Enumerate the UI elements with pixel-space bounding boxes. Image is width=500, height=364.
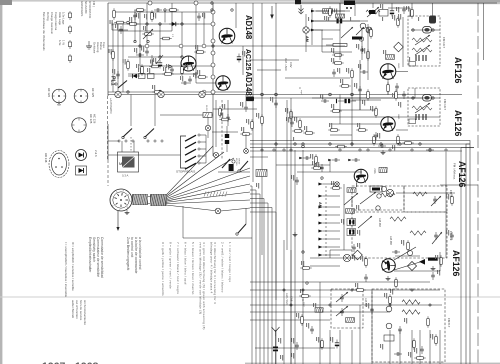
bottom cluster x [354, 289, 366, 292]
svg-text:1968: 1968 [75, 361, 99, 364]
switch contact S2 on supply rail [199, 91, 205, 97]
resistor R113 [194, 51, 206, 54]
svg-text:AM 480: AM 480 [389, 236, 393, 245]
cap u bottom [295, 342, 299, 350]
T6 wiring [396, 71, 408, 73]
svg-text:CAV: CAV [289, 62, 293, 68]
transistor T5 AF126 IF2 [381, 117, 395, 131]
cluster row2 a [274, 100, 278, 108]
AM osc pot arrow [344, 193, 358, 205]
svg-text:9 = gelb / yellow / jaune / am: 9 = gelb / yellow / jaune / amarillo [161, 242, 165, 296]
transistor T1 AD148 output [219, 28, 235, 44]
IF can FM10.7 second [408, 88, 440, 126]
FM small pot [397, 16, 400, 28]
cap C505 box [148, 74, 155, 79]
svg-text:Carga maxima: Carga maxima [54, 12, 58, 31]
svg-text:DT/FONT/FD: DT/FONT/FD [88, 1, 92, 18]
emitter parts T6 [387, 82, 390, 94]
svg-text:to control unit: to control unit [130, 237, 134, 257]
AM circuit small parts [332, 54, 344, 57]
AM band switch wedges [311, 10, 315, 13]
AM ant coil hatched [323, 9, 333, 14]
svg-text:AD 148: AD 148 [44, 153, 48, 163]
elco top [390, 8, 394, 17]
transistor T2 AC125 driver [181, 56, 196, 71]
cluster row2 e [328, 129, 340, 132]
pilot lamp [205, 125, 210, 130]
svg-text:AF 126: AF 126 [47, 88, 51, 97]
switch contact terminals [118, 140, 120, 142]
top strip tiny labels row [308, 17, 309, 21]
FM diamond mixer [394, 42, 404, 52]
osz box left border [445, 152, 447, 258]
diamond symbol osc [353, 250, 363, 260]
mid right connections [440, 184, 478, 186]
filter blob above can1 [429, 16, 436, 24]
speaker coupling parts [112, 49, 115, 61]
svg-text:AM: AM [318, 202, 322, 208]
AM variable cap circle [343, 254, 350, 261]
switch levers left [123, 129, 132, 138]
right short rail [483, 3, 485, 60]
AM466 trimmer 2 [336, 306, 348, 316]
cluster under T2 row [290, 109, 293, 121]
FM aerial cap black [369, 10, 376, 14]
AM dark cap pair 1 [347, 219, 356, 226]
svg-text:AD148: AD148 [244, 72, 253, 97]
osc right parts [440, 255, 443, 267]
svg-text:à la boîte de commande: à la boîte de commande [134, 237, 138, 273]
bottom junctions [283, 289, 285, 291]
AGC diode [128, 74, 140, 78]
AM input coil [336, 14, 345, 18]
osc coil FM [358, 216, 372, 228]
svg-text:blindage pour 4 / blindaje par: blindage pour 4 / blindaje para 4 [210, 242, 214, 294]
svg-text:CAB: CAB [290, 296, 294, 302]
ratio det cluster [303, 156, 311, 160]
svg-text:0,3 A: 0,3 A [122, 174, 129, 178]
arrow to control unit [116, 211, 119, 231]
pinout AF125 basing circle [74, 89, 88, 103]
diode symbol circle 1 [76, 150, 87, 161]
bottom cluster v [310, 326, 314, 334]
mid cluster l [339, 85, 351, 88]
svg-text:SHUNT: SHUNT [238, 158, 240, 165]
svg-text:+AUTOMATIC: +AUTOMATIC [109, 98, 112, 114]
elco C115 muting [225, 126, 229, 152]
junctions center [261, 93, 264, 96]
left border dashed continuation [107, 160, 109, 186]
black blob top left of band [295, 0, 301, 4]
bottom cluster u [301, 314, 304, 326]
relay coil black box [246, 97, 254, 102]
svg-text:1/3e: 1/3e [58, 40, 62, 46]
bottom extra rails [250, 281, 430, 283]
black terminal block top [344, 1, 355, 6]
svg-text:AF126: AF126 [453, 110, 463, 137]
relay wiring [221, 100, 223, 160]
svg-text:AM 460: AM 460 [378, 218, 382, 227]
svg-text:1 = rot / red / rouge / rojo: 1 = rot / red / rouge / rojo [228, 242, 232, 282]
osc AM460 dashed box [352, 212, 447, 258]
LDR circle bottom [386, 306, 392, 312]
AM466 coil [346, 318, 355, 323]
svg-text:I = unempfindlich / insensit: I = unempfindlich / insensitive / insens… [64, 242, 68, 297]
antenna coupling cap black [273, 336, 278, 364]
svg-text:FM |: FM | [92, 1, 96, 7]
motor M [118, 152, 139, 172]
test point circles [381, 186, 386, 191]
FM4 can dashed box [404, 186, 447, 212]
stop relay frame [181, 136, 187, 168]
RF chain wires [322, 38, 333, 40]
black pad [352, 37, 362, 40]
cable hatched sleeve 2 [151, 195, 167, 206]
svg-text:1/3e Lage: 1/3e Lage [62, 12, 66, 25]
osc connections [395, 255, 420, 257]
mid cluster o - under IF1 [395, 89, 398, 101]
meter lamp circle [386, 189, 393, 196]
fan lower wire [183, 237, 252, 239]
mid rail junction circles [145, 44, 149, 48]
svg-text:Zum Bedienungsgerät: Zum Bedienungsgerät [126, 237, 130, 270]
cluster under AC125 [219, 106, 222, 118]
AM466 dashed box [331, 289, 363, 328]
svg-text:FM / AM osz.: FM / AM osz. [453, 163, 457, 180]
svg-text:YA33: YA33 [397, 63, 400, 69]
AM cap lower [352, 244, 356, 252]
extra mid-left verticals [215, 100, 217, 147]
svg-text:regel: regel [303, 302, 305, 307]
osc grounds [386, 276, 391, 281]
stop relay contact set [185, 135, 196, 169]
svg-text:Caja: Caja [102, 42, 106, 48]
right mid cluster s [451, 194, 454, 206]
right border dashed rail [477, 3, 479, 364]
rails x299-307 [302, 150, 304, 364]
ground arrow feed [270, 6, 274, 19]
resistor R107 2.2 [160, 37, 172, 40]
IF bus small parts [315, 154, 318, 166]
junctions on bus [261, 149, 263, 151]
svg-text:sin funcionamiento: sin funcionamiento [83, 300, 87, 325]
svg-text:FM 10.7: FM 10.7 [443, 99, 447, 110]
svg-text:L53A: L53A [373, 168, 376, 174]
svg-text:AF 125: AF 125 [91, 88, 95, 97]
transistor T3 AD148 output [216, 76, 230, 90]
svg-text:U: U [298, 87, 302, 89]
IF can FM10.7 first [408, 16, 440, 66]
bottom rail wires [250, 289, 440, 291]
osc emitter circle [407, 250, 412, 255]
motor feed lines [121, 141, 123, 152]
cable hatched sleeve 1 [133, 195, 149, 205]
upper mid extra wires [134, 10, 136, 42]
antenna input symbol [272, 327, 280, 336]
top strip extra parts [329, 6, 332, 18]
feedback resistor R114 [162, 73, 174, 76]
audio section vertical rails [112, 24, 114, 92]
svg-text:8 = grün / green / vert / verd: 8 = grün / green / vert / verde [169, 242, 173, 289]
bottom cluster y [370, 306, 374, 314]
fuse F3 [68, 40, 71, 49]
bottom lower cluster [384, 335, 394, 341]
resistor R110 [127, 59, 130, 71]
transistor T6 AF126 IF1 [380, 64, 396, 80]
tone network cluster [134, 9, 146, 12]
FM 8.7 can dashed box [372, 289, 445, 362]
demod parts [295, 177, 299, 185]
preset pot R109 [127, 23, 139, 26]
chevron ground top [299, 5, 304, 14]
svg-text:außer Betrieb: außer Betrieb [71, 300, 75, 319]
black bar right [428, 258, 438, 261]
mid wires extra [352, 99, 381, 101]
relay section rails [130, 95, 132, 127]
svg-text:regel: regel [300, 90, 302, 95]
aux contact right [222, 159, 230, 168]
emitter rail junction circles [211, 10, 215, 14]
coil box right of T7 [379, 168, 387, 173]
svg-text:a la unidad de control: a la unidad de control [138, 237, 142, 270]
center rails after label column [252, 3, 254, 182]
AM coil box top [347, 188, 356, 193]
T8 bias [365, 256, 368, 268]
switch link dashed [130, 137, 132, 152]
pot with arrow top2 [366, 10, 380, 14]
T5 bias parts [375, 106, 378, 118]
bottom cluster bb [394, 352, 402, 356]
pinout AF126 basing circle [52, 89, 66, 103]
transistor T8 AF126 oscillator [382, 259, 396, 273]
fuse F4 [68, 54, 71, 63]
svg-text:1 W: 1 W [62, 40, 66, 45]
resistor R115 [152, 91, 164, 94]
cap C106 [145, 48, 149, 56]
svg-text:2 & 6: 2 & 6 [94, 150, 98, 157]
FM hatched filter box [386, 55, 395, 60]
svg-text:hors de service: hors de service [79, 300, 83, 321]
cluster row2 b [261, 114, 264, 126]
cluster row2 d [337, 99, 357, 103]
output elco C110 [237, 54, 241, 63]
svg-text:7 = schwarz / black / noir / n: 7 = schwarz / black / noir / negro [176, 242, 180, 294]
bottom cap labels [280, 355, 283, 361]
switch contact S1 on supply rail [158, 91, 164, 97]
connector ground [125, 210, 130, 215]
svg-text:AF126: AF126 [451, 250, 461, 277]
aux resistor [240, 133, 252, 136]
pot R504 down arrow [156, 55, 163, 64]
svg-text:+: + [321, 177, 323, 181]
svg-text:U: U [301, 299, 305, 301]
svg-text:NF/AF/BF: NF/AF/BF [84, 1, 88, 14]
elco C107 [158, 60, 162, 69]
svg-text:1967: 1967 [42, 361, 66, 364]
bottom cluster aa [435, 334, 438, 346]
AM cap pair black [337, 19, 343, 24]
switch contact S0 on supply rail [115, 91, 121, 97]
osc contact wedge [419, 259, 425, 265]
cap C109 [181, 81, 189, 85]
AM switch circle [303, 27, 309, 33]
mid cluster n [367, 89, 370, 101]
fold line [0, 296, 500, 298]
FM discriminator dashed box [352, 186, 404, 210]
osc small parts [407, 240, 410, 252]
more junction dots audio [134, 40, 136, 42]
svg-text:vert avec blindage (3) / verde: vert avec blindage (3) / verde con blind… [199, 242, 203, 314]
top distribution wires [339, 3, 341, 12]
bottom cluster w [321, 338, 324, 350]
svg-text:5 = braun / brown / brun / mar: 5 = braun / brown / brun / marrón [191, 242, 195, 295]
FM69 coil [410, 231, 426, 235]
svg-text:FM 6.9: FM 6.9 [449, 231, 453, 241]
svg-text:ALB / AVC: ALB / AVC [285, 293, 289, 305]
pinout AD148 package outline [49, 151, 69, 178]
svg-text:FM 4: FM 4 [449, 190, 453, 197]
junction circle mid [213, 152, 218, 157]
FM wire to can [388, 8, 410, 17]
osc feedback diagonals [394, 247, 416, 260]
FM left column circles [360, 23, 366, 29]
FM left parts [360, 46, 364, 54]
AM IF coil 2 [346, 209, 355, 214]
svg-text:FM 10.7: FM 10.7 [442, 37, 446, 48]
svg-text:M: M [119, 161, 122, 166]
svg-text:STOPRELAIS: STOPRELAIS [176, 170, 195, 174]
svg-text:Betriebsdauer der Widerstands: Betriebsdauer der Widerstands [42, 12, 46, 51]
bus corner turn downs [466, 141, 470, 364]
mid connection wires [290, 116, 440, 118]
trap circle [366, 27, 372, 33]
svg-text:Sensitivity switch: Sensitivity switch [92, 237, 96, 262]
svg-text:Conmutador de sensibilidad: Conmutador de sensibilidad [100, 237, 104, 278]
cap C504 box [139, 74, 146, 79]
wire 4 screen hatch [204, 192, 227, 197]
resistor top right [411, 7, 414, 19]
svg-text:RU503: RU503 [205, 105, 207, 112]
gang junction dots [335, 182, 339, 186]
svg-text:FM 8.7: FM 8.7 [447, 318, 451, 328]
LDR box [370, 186, 382, 192]
chassis symbol [86, 41, 92, 49]
svg-text:2 = weiß / white / blanc / bla: 2 = weiß / white / blanc / blanco [221, 242, 225, 293]
fan switch lever [238, 224, 246, 233]
T5 emitter cluster [373, 134, 376, 146]
cap C505 pair [197, 13, 201, 21]
left border rail [107, 3, 109, 96]
tuning gang dashed link [325, 186, 327, 256]
audio section horizontal rails [115, 11, 213, 13]
preamp parts [136, 53, 144, 57]
svg-text:Richtig: Richtig [46, 12, 50, 21]
svg-text:AF126: AF126 [453, 57, 463, 84]
FM input box [379, 10, 388, 17]
bottom vertical wires [283, 330, 285, 364]
relay coil RU503 [203, 113, 212, 118]
mixer cluster [351, 68, 354, 80]
svg-text:Commutateur de sensibilité: Commutateur de sensibilité [96, 237, 100, 277]
bus junctions [275, 143, 277, 145]
osc diamond right [407, 261, 416, 270]
mid cluster m [358, 86, 362, 94]
trim arrow 2 [356, 27, 364, 35]
speaker jack [115, 83, 117, 85]
svg-text:Charge maximum: Charge maximum [50, 12, 54, 35]
svg-text:AD148: AD148 [244, 15, 253, 40]
muting shunt block [229, 164, 234, 171]
cable fan wires [166, 146, 213, 195]
bottom-left resistor boxes [300, 267, 312, 270]
AM466 trimmer 1 [336, 292, 348, 302]
rail x295 [294, 150, 296, 364]
right mid cluster t [450, 232, 454, 240]
AM dark cap pair 2 [347, 229, 356, 236]
fuse F2 [68, 25, 71, 34]
svg-text:AF126: AF126 [457, 161, 467, 188]
svg-text:III = empfindlich / sensitive: III = empfindlich / sensitive / sensible [71, 242, 75, 291]
elco bottom [335, 340, 339, 349]
fuse F1 [68, 11, 71, 20]
relay area extra parts [219, 118, 231, 121]
nested corner bus wires [250, 186, 252, 364]
audio input cluster far left [113, 8, 116, 20]
resistor R112 [181, 64, 184, 76]
main IF bus bundle [250, 140, 466, 142]
top rail junction circles [148, 1, 152, 5]
transistor T7 AF126 3rd IF [354, 169, 368, 183]
AM tuning wedge column [318, 183, 322, 186]
bottom mid cluster [389, 294, 392, 306]
cap C108 [170, 66, 174, 74]
svg-text:out of function: out of function [75, 300, 79, 319]
svg-text:Empfindlichkeitsschalter: Empfindlichkeitsschalter [88, 237, 92, 273]
AM mid wires [343, 184, 345, 250]
svg-text:6 = blau / blue / bleu / azul: 6 = blau / blue / bleu / azul [184, 242, 188, 285]
fan junction contact [215, 208, 221, 214]
thermistor RU05 with arrow [142, 33, 154, 36]
svg-text:AC125: AC125 [244, 49, 251, 71]
svg-text:AM: AM [305, 36, 309, 42]
top border wire [108, 2, 497, 4]
driver diode D1 [169, 22, 179, 26]
ferrite rod bar [333, 44, 347, 47]
DIN connector plug [110, 189, 132, 211]
AM rail verticals [305, 14, 307, 27]
AM tuning gang arrow [341, 27, 353, 38]
junction dots audio [146, 23, 148, 25]
svg-text:AC 125: AC 125 [89, 114, 93, 124]
speaker coil box LSP [256, 170, 267, 177]
pinout AC125 basing circle [72, 118, 86, 132]
svg-text:AC 126: AC 126 [93, 114, 97, 124]
svg-text:GRD/CERS: GRD/CERS [80, 1, 84, 16]
diode symbol circle 2 [76, 166, 87, 175]
speaker switch lever [118, 81, 127, 89]
